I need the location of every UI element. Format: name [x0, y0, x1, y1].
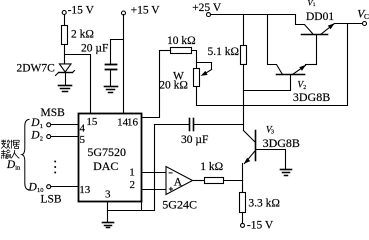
DAC pin labels: [79, 116, 138, 200]
terminal +15V: [122, 11, 126, 15]
ground at DAC pin3: [103, 222, 114, 224]
wire DAC pin4: [51, 124, 79, 126]
wire +25V rail: [211, 15, 313, 34]
svg-text:10: 10: [37, 187, 44, 194]
wire 1k to V3 emitter node: [224, 180, 243, 182]
svg-text:1: 1: [40, 123, 43, 130]
wire 30uF left lead: [155, 124, 189, 126]
svg-text:3DG8B: 3DG8B: [263, 136, 300, 150]
svg-text:3: 3: [271, 130, 274, 136]
svg-text:4: 4: [80, 122, 86, 134]
wire zener node to DAC pin15: [65, 55, 91, 114]
svg-text:30 µF: 30 µF: [181, 134, 208, 146]
wire DAC pin2 to op-amp: [142, 189, 167, 191]
svg-text:DD01: DD01: [306, 11, 334, 23]
wire DAC pin3 ground stem: [107, 202, 109, 223]
svg-text:-15 V: -15 V: [68, 5, 95, 17]
wire 10k left: [160, 50, 171, 52]
zener diode 2DW7C: [59, 64, 71, 72]
svg-text:1: 1: [313, 2, 316, 8]
svg-text:2 kΩ: 2 kΩ: [71, 29, 94, 41]
svg-text:3DG8B: 3DG8B: [293, 90, 330, 104]
transistor V1 DD01: [302, 34, 328, 36]
capacitor C 20uF: [106, 64, 117, 66]
capacitor C 30uF: [189, 119, 191, 131]
wire op-amp output: [193, 180, 205, 182]
svg-text:A: A: [174, 177, 183, 189]
svg-text:2: 2: [40, 136, 43, 143]
wire R2k to zener node: [64, 45, 66, 64]
chinese label ru (input): [11, 150, 19, 158]
wire V2 emitter to V1 base: [306, 64, 317, 66]
wire -15V to R 2k: [64, 15, 66, 26]
wire 10k right to pot: [192, 51, 197, 69]
transistor V2 3DG8B: [277, 74, 305, 76]
terminal -15V top left: [62, 11, 66, 15]
minus sign: [169, 172, 173, 174]
op-amp U 5G24C: [166, 167, 193, 195]
plus sign: [169, 188, 173, 190]
svg-text:LSB: LSB: [41, 193, 62, 205]
svg-text:1: 1: [129, 166, 135, 178]
resistor R 1k ohm: [205, 178, 224, 184]
terminal VC: [363, 22, 367, 26]
input ellipsis dots: [54, 161, 56, 174]
wire rail to V2 collector: [268, 15, 283, 75]
svg-text:20 kΩ: 20 kΩ: [159, 80, 188, 92]
wire rail to R5.1k: [243, 15, 245, 46]
svg-text:1 kΩ: 1 kΩ: [200, 161, 223, 173]
wire V1 emitter to VC: [335, 23, 363, 25]
op-amp A label and signs: [169, 173, 183, 191]
svg-text:D: D: [30, 130, 40, 142]
chinese label shu (of shuru): [1, 150, 10, 159]
potentiometer W 20k: [194, 69, 200, 87]
wire +15V down to DAC pin14: [123, 15, 125, 114]
svg-text:13: 13: [79, 184, 91, 196]
wire 3.3k to -15V terminal: [242, 213, 244, 224]
svg-text:16: 16: [127, 116, 139, 128]
wire feedback VC down and across: [197, 24, 348, 106]
resistor R 10k ohm: [171, 48, 192, 54]
wire stub box corner: [141, 202, 143, 211]
svg-text:20 µF: 20 µF: [81, 42, 108, 54]
wire 20uF to ground: [110, 71, 112, 86]
svg-text:-15 V: -15 V: [247, 219, 274, 229]
svg-text:DAC: DAC: [93, 159, 118, 173]
wiper link of potentiometer: [197, 63, 212, 70]
wire V3 emitter down: [242, 164, 244, 193]
resistor R 5.1k ohm: [241, 46, 247, 65]
wire capacitor tap: [111, 40, 124, 64]
svg-text:15: 15: [86, 116, 98, 128]
svg-text:D: D: [30, 117, 40, 129]
wire zener to ground: [65, 74, 67, 85]
svg-text:5G7520: 5G7520: [87, 145, 126, 159]
wire 30uF right lead: [195, 124, 244, 126]
resistor R 3.3k ohm: [240, 193, 246, 213]
svg-text:10 kΩ: 10 kΩ: [167, 35, 196, 47]
chinese label shu ju (data): [1, 140, 10, 149]
wire 10k left vertical to pin16: [142, 51, 160, 118]
svg-text:2DW7C: 2DW7C: [17, 63, 56, 75]
wire analog ground link: [108, 125, 155, 211]
transistor V3 3DG8B: [255, 131, 257, 161]
svg-text:3: 3: [105, 188, 111, 200]
svg-text:C: C: [364, 12, 369, 21]
wire DAC pin1 to op-amp: [142, 172, 167, 174]
svg-text:in: in: [15, 164, 21, 171]
svg-text:2: 2: [130, 179, 136, 191]
terminal +25V: [207, 13, 211, 17]
ground below 20uF: [105, 86, 118, 88]
svg-text:5: 5: [80, 134, 86, 146]
wire DAC pin5: [51, 136, 79, 138]
svg-text:D: D: [28, 181, 38, 193]
ground below zener: [59, 85, 72, 87]
wire DAC pin13: [51, 186, 79, 188]
resistor R 2k ohm: [62, 26, 68, 45]
svg-text:3.3 kΩ: 3.3 kΩ: [248, 197, 280, 209]
terminal -15V bottom: [241, 223, 245, 227]
DAC box 5G7520: [79, 114, 142, 202]
wire 5.1k bottom vertical to V3 collector: [243, 65, 245, 131]
svg-text:+25 V: +25 V: [192, 2, 222, 14]
svg-text:5G24C: 5G24C: [162, 198, 197, 212]
svg-text:MSB: MSB: [41, 107, 66, 119]
ground at V3 base: [281, 169, 292, 171]
svg-text:5.1 kΩ: 5.1 kΩ: [208, 46, 240, 58]
wire V2 base line: [244, 90, 291, 92]
wire V3 base to ground: [285, 150, 287, 169]
brace for data input: [22, 119, 30, 190]
wire pot bottom to feedback line: [196, 88, 198, 106]
chinese label ju (of shuju): [11, 140, 20, 149]
svg-text:+15 V: +15 V: [131, 5, 161, 17]
